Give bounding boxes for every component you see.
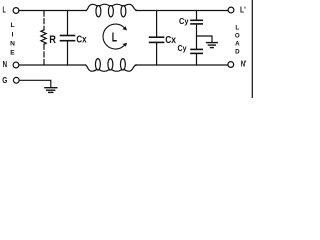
capacitor Cy top — [191, 19, 202, 21]
resistor R dashed lead bottom — [43, 44, 45, 65]
svg-text:L': L' — [240, 6, 246, 15]
capacitor Cy bottom — [191, 48, 202, 50]
capacitor Cx1 — [61, 35, 75, 37]
svg-text:L: L — [3, 6, 6, 15]
svg-text:A: A — [235, 41, 240, 48]
svg-text:N: N — [3, 60, 8, 69]
svg-text:R: R — [49, 34, 56, 46]
svg-text:Cx: Cx — [76, 35, 87, 46]
wire bottom rail right — [135, 64, 228, 66]
capacitor Cx1 lead top — [67, 11, 69, 36]
svg-text:N: N — [10, 41, 15, 48]
wire to right ground — [197, 36, 213, 42]
capacitor Cy bottom lead — [196, 54, 198, 65]
svg-text:L: L — [112, 31, 118, 45]
terminal N — [13, 62, 19, 68]
resistor R dashed lead top — [43, 11, 45, 30]
resistor R — [41, 30, 46, 45]
svg-text:L: L — [235, 25, 239, 32]
svg-text:L: L — [10, 22, 14, 29]
svg-text:Cy: Cy — [179, 17, 189, 26]
svg-text:G: G — [2, 76, 7, 85]
capacitor Cx1 lead bottom — [67, 41, 69, 65]
terminal N' — [228, 62, 234, 68]
wire bottom rail left — [19, 64, 86, 66]
svg-text:D: D — [235, 49, 240, 56]
capacitor Cy top lead — [196, 11, 198, 21]
ground symbol (G) — [45, 87, 57, 89]
terminal L' — [228, 7, 234, 13]
wire top rail left — [19, 10, 86, 12]
border line right — [251, 0, 253, 98]
ground symbol (Cy midpoint) — [207, 42, 218, 44]
terminal G — [13, 77, 19, 83]
choke circulation arrow arc — [103, 24, 125, 49]
choke arrow head top — [123, 26, 128, 30]
svg-text:O: O — [235, 33, 240, 40]
capacitor Cx2 — [150, 36, 164, 38]
svg-text:E: E — [10, 49, 15, 56]
svg-text:I: I — [12, 32, 14, 39]
wire top rail right — [136, 10, 228, 12]
svg-text:Cx: Cx — [165, 35, 176, 46]
choke arrow head bottom — [122, 43, 127, 47]
wire ground branch from G — [19, 80, 51, 87]
wire between Cy caps — [196, 24, 198, 49]
svg-text:N': N' — [241, 60, 247, 69]
capacitor Cx2 lead bottom — [156, 43, 158, 65]
inductor choke top winding — [86, 4, 137, 10]
svg-text:Cy: Cy — [178, 44, 187, 53]
terminal L — [13, 8, 19, 14]
capacitor Cx2 lead top — [156, 11, 158, 38]
inductor choke bottom winding — [86, 65, 137, 71]
